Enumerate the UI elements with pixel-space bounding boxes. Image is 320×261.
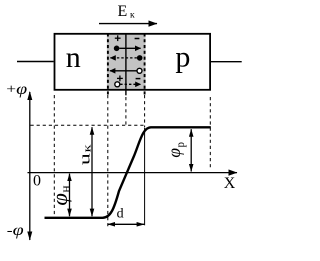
svg-text:+φ: +φ (6, 80, 27, 98)
svg-text:0: 0 (33, 172, 41, 189)
svg-text:φн: φн (47, 185, 72, 205)
svg-text:φp: φp (164, 141, 187, 157)
svg-text:к: к (130, 11, 135, 21)
svg-text:E: E (118, 3, 128, 20)
svg-text:-φ: -φ (7, 221, 24, 239)
svg-text:d: d (117, 207, 124, 222)
svg-text:uк: uк (77, 144, 94, 165)
svg-text:X: X (224, 175, 236, 192)
svg-text:n: n (66, 41, 81, 74)
svg-text:p: p (175, 41, 190, 74)
